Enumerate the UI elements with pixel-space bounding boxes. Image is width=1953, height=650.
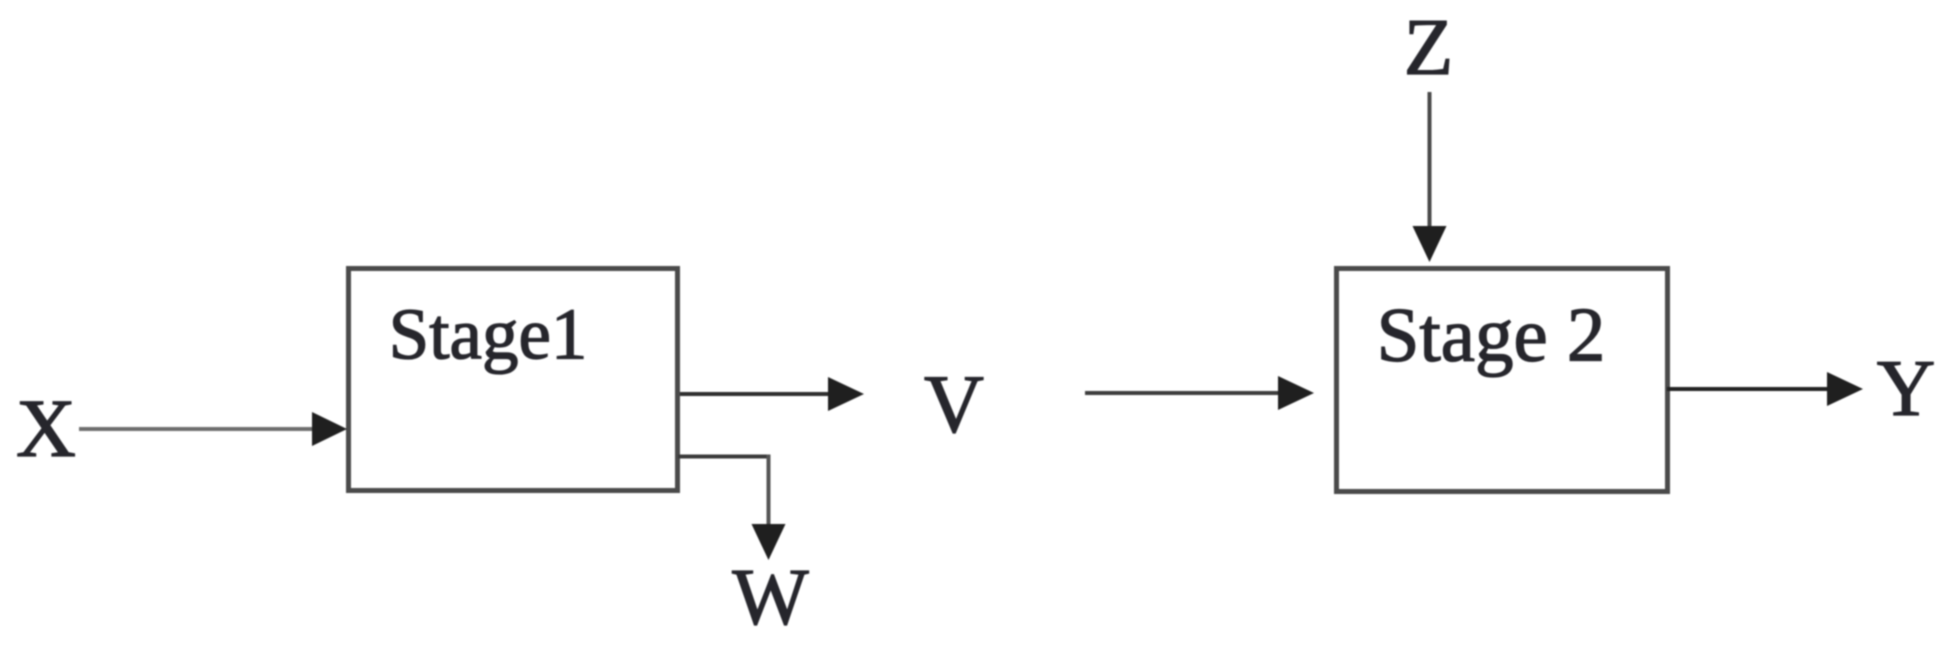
svg-text:Stage 2: Stage 2 (1377, 292, 1606, 378)
svg-text:X: X (16, 382, 76, 474)
block Stage1 (349, 269, 678, 491)
svg-text:Stage1: Stage1 (389, 294, 588, 375)
wire Stage2 to Y (1667, 387, 1829, 391)
arrowhead Z to Stage2 (1413, 226, 1447, 262)
wire Stage1 to W horizontal segment (678, 455, 769, 459)
svg-text:Y: Y (1877, 343, 1936, 433)
wire X to Stage1 (79, 427, 316, 431)
arrowhead V to Stage2 (1278, 376, 1314, 410)
wire V to Stage2 (1085, 391, 1280, 395)
arrowhead Stage2 to Y (1827, 372, 1863, 406)
arrowhead X to Stage1 (312, 412, 347, 446)
svg-text:V: V (924, 358, 984, 450)
arrowhead Stage1 to V (828, 377, 864, 411)
block Stage2 (1337, 269, 1668, 492)
wire Stage1 to V (680, 392, 830, 396)
svg-text:W: W (732, 552, 809, 642)
svg-text:Z: Z (1404, 2, 1453, 92)
arrowhead W (752, 524, 786, 560)
wire Z to Stage2 (1428, 92, 1432, 228)
wire Stage1 to W vertical segment (767, 455, 771, 526)
